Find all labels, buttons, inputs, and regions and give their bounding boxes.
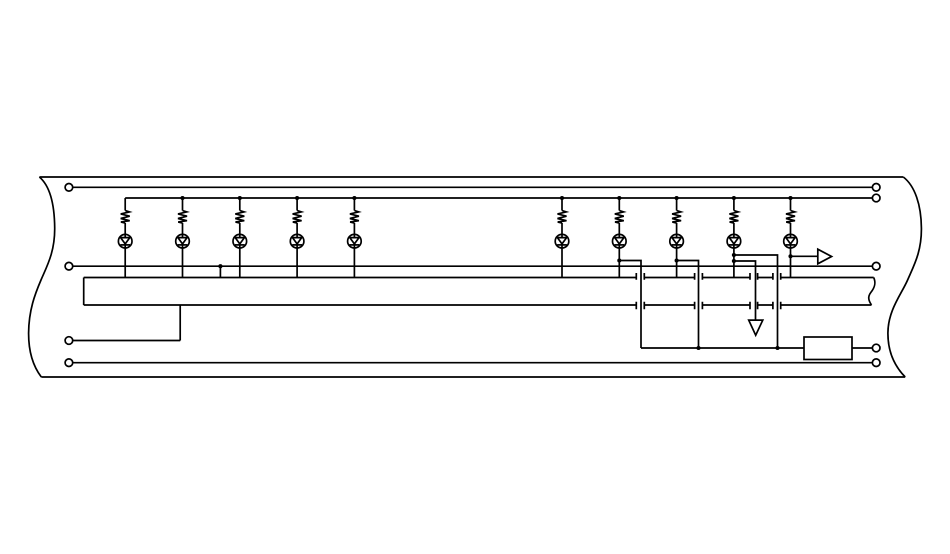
frame bottom border	[41, 376, 905, 378]
arrester diode D9	[727, 234, 741, 248]
wire branch 7 tap to drop	[619, 261, 641, 349]
wire branch 10 tap to arrow	[791, 255, 818, 257]
resistor R5	[350, 211, 359, 224]
wire branch 3 middle lead	[239, 223, 241, 234]
junction dot branch 8 on rail B	[675, 196, 679, 200]
wire branch 8 tap to drop	[677, 261, 699, 349]
wire branch 6 lower lead	[561, 244, 563, 278]
junction dot collector at x698	[696, 346, 700, 350]
wire branch 9 lower lead	[733, 244, 735, 278]
wire branch 10 lower lead	[790, 244, 792, 278]
arrester diode D7	[613, 234, 627, 248]
junction dot branch 3 on rail B	[238, 196, 242, 200]
wire branch 8 lower lead	[676, 244, 678, 278]
wire branch 5 lower lead	[353, 244, 355, 278]
component box Z1	[804, 337, 852, 360]
wire branch 2 middle lead	[182, 223, 184, 234]
arrester diode D6	[555, 234, 569, 248]
wire branch 4 lower lead	[296, 244, 298, 278]
wire branch 8 upper lead	[676, 198, 678, 211]
wire branch 5 upper lead	[353, 198, 355, 211]
cable sheath left edge	[83, 278, 85, 306]
resistor R1	[121, 211, 130, 224]
wire branch 5 middle lead	[353, 223, 355, 234]
arrester diode D3	[233, 234, 247, 248]
wire branch 6 upper lead	[561, 198, 563, 211]
wire branch 6 middle lead	[561, 223, 563, 234]
terminal T6 (right second)	[872, 194, 880, 202]
wire bottom collector	[641, 347, 804, 349]
wire rail D (bottom conductor)	[73, 362, 873, 364]
resistor R9	[729, 211, 738, 224]
wire branch 8 middle lead	[676, 223, 678, 234]
wire terminal T3 horizontal run	[73, 340, 181, 342]
resistor R10	[786, 211, 795, 224]
frame right break edge	[888, 177, 922, 377]
junction dot branch 7 tap	[617, 258, 621, 262]
wire node N1 stub to cable	[219, 266, 221, 277]
resistor R3	[235, 211, 244, 224]
wire rail C (mid conductor)	[73, 265, 873, 267]
wire branch 9 upper tap to drop	[734, 255, 778, 348]
resistor R2	[178, 211, 187, 224]
junction dot branch 9 lower tap	[732, 259, 736, 263]
junction dot branch 5 on rail B	[352, 196, 356, 200]
junction dot branch 9 on rail B	[732, 196, 736, 200]
frame left break edge	[29, 177, 55, 377]
cable sheath bottom edge (segmented with splice ticks)	[84, 302, 872, 310]
resistor R6	[558, 211, 567, 224]
junction dot branch 10 tap	[788, 254, 792, 258]
wire branch 7 upper lead	[618, 198, 620, 211]
terminal T8 (right lower)	[872, 344, 880, 352]
wire branch 7 middle lead	[618, 223, 620, 234]
junction dot branch 10 on rail B	[788, 196, 792, 200]
arrester diode D4	[290, 234, 304, 248]
wire branch 4 middle lead	[296, 223, 298, 234]
arrester diode D1	[118, 234, 132, 248]
cable sheath right break edge	[869, 278, 875, 306]
wire branch 7 lower lead	[618, 244, 620, 278]
resistor R8	[672, 211, 681, 224]
wire branch 1 middle lead	[124, 223, 126, 234]
wire branch 1 upper lead	[124, 198, 126, 211]
arrester diode D8	[670, 234, 684, 248]
wire branch 9 upper lead	[733, 198, 735, 211]
wire box Z1 to terminal T8	[852, 347, 872, 349]
wire branch 3 upper lead	[239, 198, 241, 211]
terminal T1 (left top)	[65, 184, 73, 192]
junction dot branch 9 upper tap	[732, 253, 736, 257]
terminal T7 (right mid)	[872, 262, 880, 270]
junction dot branch 2 on rail B	[180, 196, 184, 200]
junction dot branch 8 tap	[675, 258, 679, 262]
wire branch 10 upper lead	[790, 198, 792, 211]
junction dot branch 7 on rail B	[617, 196, 621, 200]
frame top border	[39, 176, 903, 178]
wire rail B (arrester bus)	[125, 197, 872, 199]
terminal T9 (right bottom)	[872, 359, 880, 367]
arrow A1 (open, pointing down)	[749, 320, 763, 335]
junction dot branch 4 on rail B	[295, 196, 299, 200]
resistor R4	[293, 211, 302, 224]
wire branch 4 upper lead	[296, 198, 298, 211]
wire rail A (top conductor)	[73, 186, 873, 188]
terminal T4 (left bottom)	[65, 359, 73, 367]
terminal T5 (right top)	[872, 184, 880, 192]
arrow A2 (open, pointing right)	[818, 249, 832, 264]
arrester diode D10	[784, 234, 798, 248]
junction dot collector at x777	[775, 346, 779, 350]
wire branch 9 middle lead	[733, 223, 735, 234]
junction dot branch 6 on rail B	[560, 196, 564, 200]
wire branch 3 lower lead	[239, 244, 241, 278]
cable sheath top edge (segmented with splice ticks)	[84, 273, 874, 280]
terminal T3 (left lower)	[65, 337, 73, 345]
wire branch 2 lower lead	[182, 244, 184, 278]
arrester diode D2	[176, 234, 190, 248]
wire branch 1 lower lead	[124, 244, 126, 278]
junction dot node N1 on rail C	[218, 264, 222, 268]
wire branch 2 upper lead	[182, 198, 184, 211]
arrester diode D5	[348, 234, 362, 248]
resistor R7	[615, 211, 624, 224]
wire branch 9 lower tap to arrow drop	[734, 261, 756, 320]
wire branch 10 middle lead	[790, 223, 792, 234]
terminal T2 (left mid)	[65, 262, 73, 270]
wire terminal T3 riser to cable bottom	[179, 305, 181, 341]
